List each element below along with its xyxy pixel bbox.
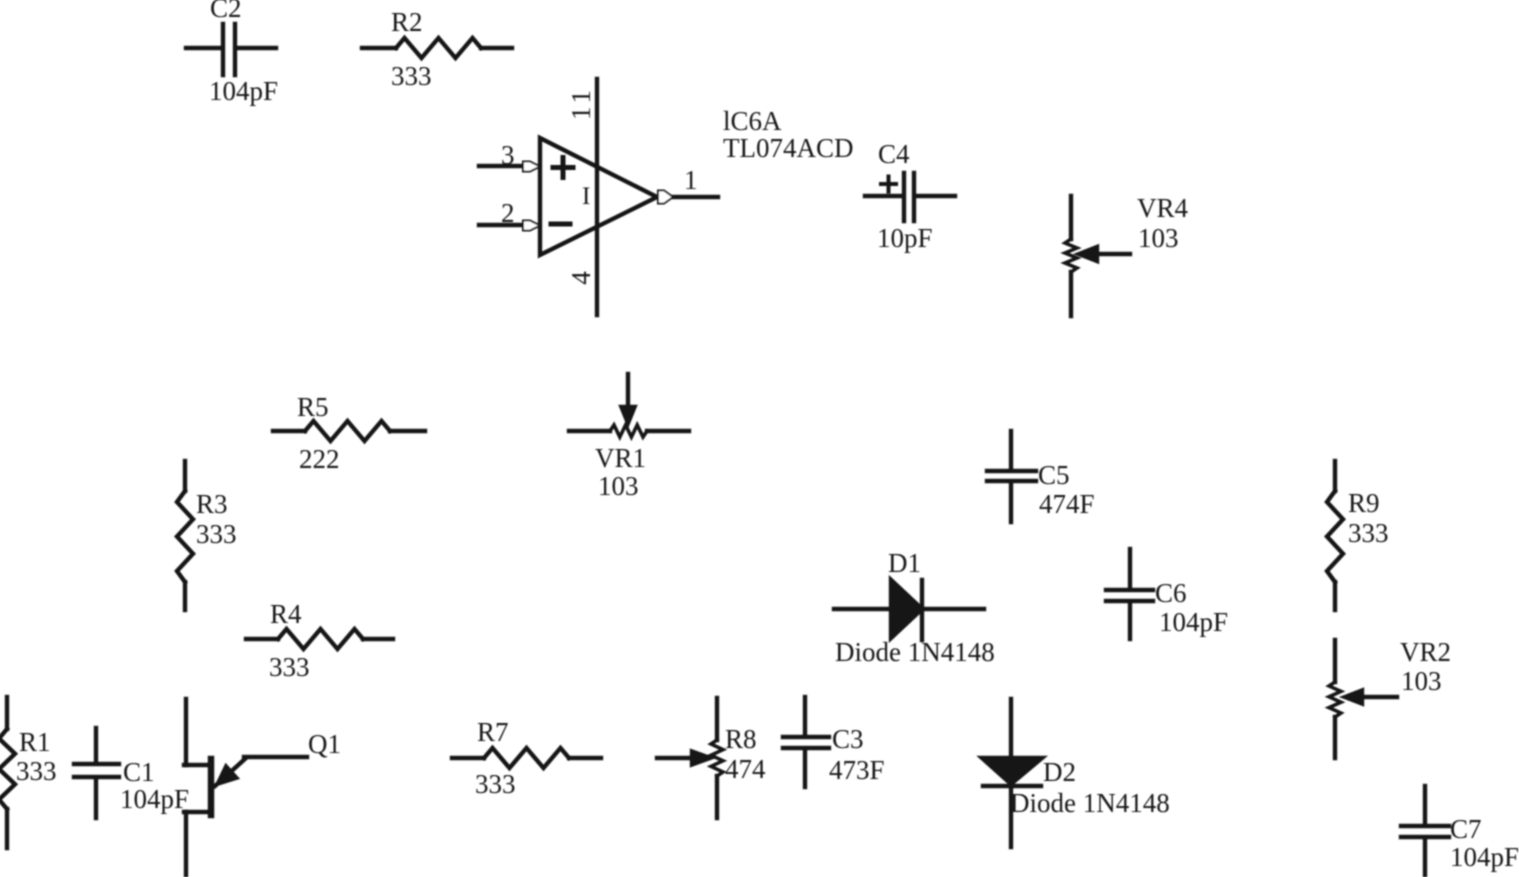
- potentiometer VR4 body: [1065, 196, 1077, 316]
- svg-text:R3: R3: [196, 489, 228, 519]
- svg-text:C3: C3: [832, 724, 864, 754]
- potentiometer VR1 body: [569, 425, 689, 437]
- svg-text:104pF: 104pF: [120, 784, 189, 814]
- svg-text:103: 103: [598, 471, 639, 501]
- svg-text:D1: D1: [888, 548, 921, 578]
- svg-text:2: 2: [501, 198, 515, 228]
- VR4 wiper arrow: [1079, 247, 1130, 261]
- pin 1 output wire: [674, 195, 718, 199]
- svg-text:C2: C2: [210, 0, 242, 23]
- svg-text:333: 333: [196, 519, 237, 549]
- capacitor C1: [74, 728, 119, 818]
- svg-text:10pF: 10pF: [877, 223, 933, 253]
- svg-text:R7: R7: [477, 717, 509, 747]
- svg-text:D2: D2: [1043, 757, 1076, 787]
- transistor Q1 base bar: [208, 759, 215, 815]
- capacitor C2: [186, 24, 276, 75]
- svg-text:I: I: [582, 183, 590, 210]
- VR1 wiper arrow: [622, 374, 635, 423]
- potentiometer VR2 body: [1329, 640, 1341, 758]
- capacitor C7: [1401, 786, 1449, 875]
- transistor Q1 bottom lead: [184, 812, 211, 875]
- svg-text:3: 3: [501, 140, 515, 170]
- transistor Q1 emitter: [215, 757, 307, 786]
- svg-text:VR2: VR2: [1400, 637, 1451, 667]
- resistor R4: [246, 629, 393, 649]
- svg-text:R1: R1: [19, 727, 51, 757]
- svg-text:1: 1: [684, 165, 698, 195]
- svg-text:333: 333: [391, 61, 432, 91]
- pin 2 wire: [479, 223, 525, 227]
- op-amp plus symbol: [553, 158, 573, 178]
- svg-text:474: 474: [725, 754, 766, 784]
- svg-text:Q1: Q1: [308, 729, 341, 759]
- potentiometer R8 body: [711, 698, 723, 818]
- svg-text:TL074ACD: TL074ACD: [723, 133, 854, 163]
- svg-text:R9: R9: [1348, 488, 1380, 518]
- svg-text:R4: R4: [270, 599, 302, 629]
- svg-text:104pF: 104pF: [209, 76, 278, 106]
- capacitor C5: [987, 431, 1036, 522]
- diode D2: [982, 699, 1042, 847]
- svg-text:R5: R5: [297, 392, 329, 422]
- pin 3 wire: [479, 164, 525, 168]
- svg-text:R2: R2: [391, 7, 423, 37]
- svg-text:lC6A: lC6A: [723, 106, 782, 136]
- svg-text:C6: C6: [1155, 578, 1187, 608]
- svg-text:R8: R8: [725, 724, 757, 754]
- svg-text:333: 333: [1348, 518, 1389, 548]
- resistor R3: [177, 461, 193, 610]
- pin 3 arrowhead: [523, 162, 540, 172]
- svg-text:11: 11: [566, 86, 596, 120]
- svg-text:C1: C1: [123, 757, 155, 787]
- svg-text:473F: 473F: [829, 755, 885, 785]
- capacitor C6: [1106, 549, 1153, 639]
- svg-text:333: 333: [475, 769, 516, 799]
- op-amp minus symbol: [551, 222, 570, 227]
- svg-text:103: 103: [1401, 666, 1442, 696]
- svg-text:C4: C4: [878, 139, 910, 169]
- svg-text:VR1: VR1: [595, 443, 646, 473]
- svg-text:333: 333: [269, 652, 310, 682]
- pin 1 output arrowhead: [658, 191, 673, 204]
- capacitor C3: [783, 697, 829, 787]
- svg-text:C7: C7: [1450, 814, 1482, 844]
- C4 plus sign: [881, 177, 896, 192]
- resistor R5: [273, 421, 425, 441]
- op-amp IC6A power rail wire: [595, 79, 599, 315]
- transistor Q1 collector wire: [184, 699, 209, 765]
- svg-text:103: 103: [1138, 223, 1179, 253]
- svg-text:333: 333: [16, 756, 57, 786]
- resistor R7: [452, 748, 601, 768]
- pin 2 arrowhead: [523, 221, 540, 231]
- resistor R1: [0, 697, 15, 848]
- svg-text:C5: C5: [1038, 460, 1070, 490]
- svg-text:104pF: 104pF: [1450, 842, 1519, 872]
- svg-text:104pF: 104pF: [1159, 607, 1228, 637]
- op-amp IC6A triangle: [540, 138, 657, 255]
- svg-text:Diode 1N4148: Diode 1N4148: [1010, 788, 1170, 818]
- svg-text:4: 4: [566, 271, 596, 285]
- resistor R9: [1327, 461, 1343, 610]
- VR2 wiper arrow: [1345, 691, 1397, 704]
- diode D1: [834, 580, 984, 640]
- svg-text:Diode 1N4148: Diode 1N4148: [835, 637, 995, 667]
- svg-text:222: 222: [299, 444, 340, 474]
- resistor R2: [362, 38, 512, 58]
- capacitor C4: [865, 173, 955, 221]
- svg-text:VR4: VR4: [1137, 193, 1189, 223]
- R8 wiper arrow: [657, 752, 710, 765]
- svg-text:474F: 474F: [1039, 489, 1095, 519]
